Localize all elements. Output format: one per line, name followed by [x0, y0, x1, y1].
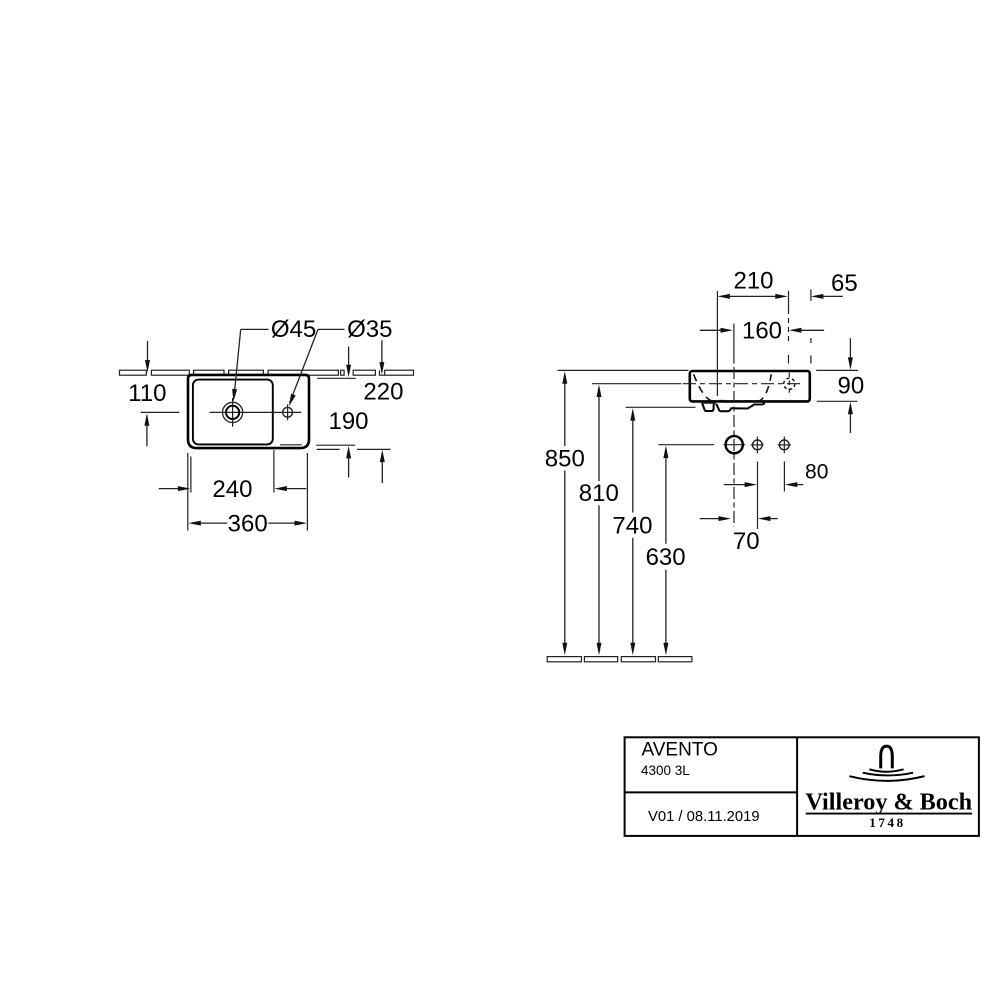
hole centreline (top view)	[210, 411, 302, 413]
extension lines for 240/360	[188, 450, 308, 531]
faucet hole axis extension line	[788, 291, 790, 364]
version V01 / 08.11.2019	[648, 809, 760, 825]
extension lines for 70/80	[758, 462, 785, 530]
logo water ripple arcs	[849, 769, 924, 781]
svg-text:4300 3L: 4300 3L	[641, 763, 690, 778]
centreline through faucet hole (dash-dot)	[683, 383, 802, 385]
svg-text:1748: 1748	[869, 815, 905, 830]
dimension 740	[612, 408, 652, 655]
logo year 1748	[869, 815, 905, 830]
dashed faucet hole (front view)	[784, 373, 795, 395]
svg-text:65: 65	[831, 270, 858, 297]
tap hole axis (vertical centreline)	[733, 324, 735, 528]
reference line 740 level	[626, 406, 696, 408]
wall section line (top view)	[120, 370, 414, 375]
dimension 90	[816, 338, 864, 433]
title block frame	[625, 737, 979, 836]
svg-text:AVENTO: AVENTO	[642, 739, 718, 760]
reference line at basin top (850)	[558, 369, 689, 371]
logo underline	[806, 813, 972, 815]
title AVENTO	[642, 739, 718, 760]
logo wordmark Villeroy &amp; Boch	[805, 789, 972, 816]
dimension 80	[724, 461, 829, 488]
svg-text:Ø45: Ø45	[271, 316, 316, 343]
dimension 360	[188, 511, 307, 538]
svg-text:80: 80	[805, 461, 828, 484]
dimension 65	[811, 270, 858, 363]
dimension 850	[545, 371, 585, 655]
svg-text:110: 110	[128, 380, 166, 407]
drain hole (front view)	[726, 436, 743, 453]
svg-text:210: 210	[733, 268, 773, 295]
svg-text:Villeroy & Boch: Villeroy & Boch	[805, 789, 972, 816]
washbasin outer outline (top view)	[188, 375, 309, 448]
dimension 240	[159, 476, 307, 503]
label Ø45 with leader	[232, 316, 316, 401]
floor section line	[547, 657, 692, 662]
svg-text:630: 630	[646, 544, 686, 571]
svg-text:360: 360	[228, 511, 268, 538]
dimension 810	[579, 385, 619, 656]
svg-text:V01 / 08.11.2019: V01 / 08.11.2019	[648, 809, 760, 825]
svg-text:220: 220	[363, 378, 403, 405]
reference line 810 level	[592, 383, 682, 385]
model number 4300 3L	[641, 763, 690, 778]
dimension 630	[646, 446, 686, 656]
svg-text:160: 160	[742, 318, 782, 345]
washbasin inner bowl outline (top view)	[193, 380, 273, 445]
svg-text:70: 70	[733, 528, 760, 555]
svg-text:90: 90	[838, 373, 865, 400]
dashed bowl profile (front view)	[694, 374, 772, 401]
washbasin body (front view)	[690, 371, 810, 401]
overflow hole Ø35 (top view)	[283, 404, 293, 420]
dimension 160	[700, 318, 824, 345]
tap hole Ø45 (top view)	[223, 398, 243, 427]
dimension 70	[700, 516, 778, 555]
dimension 190	[280, 347, 368, 478]
dimension 110	[128, 341, 179, 446]
fixing hole right (front view)	[779, 437, 789, 454]
label Ø35 with leader	[289, 316, 393, 406]
svg-text:Ø35: Ø35	[347, 316, 392, 343]
svg-text:850: 850	[545, 445, 585, 472]
fixing hole left (front view)	[753, 437, 763, 454]
drain/overflow outline (front view)	[702, 403, 764, 412]
svg-text:810: 810	[579, 480, 619, 507]
dimension 220	[317, 340, 404, 483]
svg-text:740: 740	[612, 513, 652, 540]
dimension 210	[717, 268, 787, 397]
svg-text:190: 190	[328, 408, 368, 435]
svg-text:240: 240	[212, 476, 252, 503]
reference line 630 level and hole centreline	[658, 444, 791, 446]
Villeroy &amp; Boch logo tap symbol	[881, 746, 893, 768]
